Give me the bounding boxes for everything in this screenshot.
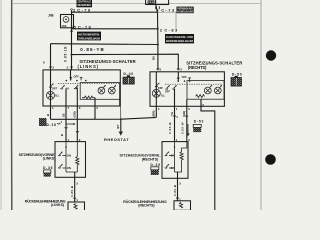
svg-text:ON: ON (67, 154, 71, 158)
svg-text:ILL: ILL (55, 94, 59, 98)
wire contact to pin 1 right (174, 89, 176, 107)
wire line1 C-79 feed (72, 11, 158, 13)
svg-text:OFF: OFF (182, 75, 188, 79)
svg-text:(RECHTS): (RECHTS) (142, 157, 159, 161)
connector 6 C-73 on main wire (155, 6, 174, 12)
wire pin1 to heater right (174, 106, 176, 141)
svg-text:D-36: D-36 (43, 166, 53, 170)
node junction main/line1 (157, 11, 159, 13)
lamp ILL right (152, 89, 165, 97)
wire pin2 to common right (177, 72, 179, 81)
svg-text:YG: YG (170, 112, 174, 116)
heater exit wire (74, 172, 76, 202)
svg-text:(GR): (GR) (73, 111, 77, 117)
LED 2 right (214, 85, 222, 94)
punch hole bottom (265, 154, 276, 165)
contact HI (74, 85, 78, 89)
svg-text:ILL: ILL (161, 93, 165, 97)
svg-text:OFF: OFF (52, 87, 58, 91)
connector D-53 box (193, 124, 201, 132)
heater resistor wire from pin2 (76, 142, 78, 157)
svg-text:C-79: C-79 (77, 8, 91, 13)
hatched label box for C-78 (77, 32, 101, 41)
node bus/arrow (120, 118, 122, 120)
svg-text:0.85-B: 0.85-B (70, 186, 74, 197)
heater resistor element (76, 157, 79, 165)
svg-text:D-50: D-50 (232, 72, 242, 76)
contact HI right (172, 85, 176, 89)
hatched label box for C-83 (165, 34, 194, 43)
wire pin6 to page bottom (201, 106, 215, 210)
node J/B wire / line3 (71, 54, 73, 56)
wire pin3 to lamp (50, 70, 52, 106)
heater internal wire (65, 152, 67, 172)
LED 2 left (108, 85, 116, 94)
svg-text:RHEOSTAT: RHEOSTAT (104, 137, 129, 142)
heater resistor feed right (182, 142, 187, 152)
thermostat contact 2 (58, 164, 71, 170)
heater resistor out (66, 165, 77, 172)
svg-text:OFF: OFF (158, 86, 164, 90)
inline connector on pin5 wire (185, 115, 188, 118)
contact OFF right (165, 85, 171, 93)
heater internal wire right (174, 152, 176, 172)
connector 5 C-78 (70, 24, 91, 31)
pin 2 left switch (67, 66, 73, 70)
page border left (10, 0, 12, 210)
node bus/pin5wire (76, 118, 78, 120)
connector 2 C-83 label (160, 28, 178, 33)
svg-text:C-73: C-73 (161, 7, 175, 12)
svg-text:BODENKABELBAUM: BODENKABELBAUM (166, 39, 194, 43)
node pin6 (200, 105, 202, 107)
heater box left (55, 142, 86, 178)
wire line3 feed to right switch pin 2 (72, 54, 179, 70)
mechanical dashed link (58, 83, 119, 85)
svg-text:ON: ON (67, 166, 71, 170)
J/B feed wire vertical (71, 10, 73, 70)
contact OFF left (60, 85, 68, 91)
svg-text:B5: B5 (152, 56, 156, 60)
heater exit wire right (177, 172, 179, 201)
fuse 10A symbol (61, 17, 69, 28)
thermostat contact 1 (58, 142, 71, 158)
connector pin 1 backrest right (176, 198, 181, 202)
svg-text:0.85-B: 0.85-B (173, 185, 177, 196)
hatched label box for C-73 (177, 7, 194, 14)
wire pin8b drop to bus (94, 106, 96, 119)
backrest resistor left (74, 204, 77, 210)
contact arm ill (49, 84, 57, 91)
svg-text:30A: 30A (148, 1, 154, 4)
pin 3 right switch (157, 68, 162, 72)
resistor R board left (82, 96, 95, 99)
svg-text:B: B (60, 134, 64, 136)
svg-text:B: B (46, 114, 50, 116)
node main/L44 (157, 44, 159, 46)
svg-text:BY: BY (116, 124, 120, 128)
svg-text:0.85-YB: 0.85-YB (80, 47, 104, 52)
link arrow pins (66, 123, 76, 125)
wire contact1 down to pin 1 (65, 88, 67, 106)
main wire from fuse to right switch pin 3 (156, 5, 158, 71)
thermostat contact 2 right (165, 164, 175, 170)
pin 3 left switch (49, 66, 54, 70)
page border top (12, 3, 261, 5)
svg-text:(LINKS): (LINKS) (43, 156, 56, 160)
wire board corner right (119, 99, 121, 106)
direction arrow on pin5 wire (186, 124, 189, 137)
connector D-50 hatched box (231, 76, 242, 86)
heater box right (162, 142, 188, 179)
wire contact2 down to pin 5 (76, 88, 78, 106)
switch box right (150, 72, 224, 107)
page border left faint (0, 0, 2, 210)
svg-text:(LINKS): (LINKS) (78, 64, 99, 69)
LED 1 right (204, 85, 212, 94)
LED board box right (187, 81, 224, 100)
pin 2 right switch (177, 68, 182, 72)
svg-text:(RECHTS): (RECHTS) (188, 65, 207, 70)
fuse box F (dedicated fuse, top) (146, 0, 169, 5)
svg-text:J/B: J/B (48, 13, 54, 17)
switch top row contacts right (177, 75, 191, 81)
svg-text:(BR): (BR) (152, 111, 156, 117)
wire pin1 drop to heater (65, 106, 67, 142)
wire board to pin 8b (94, 98, 96, 106)
svg-text:0.85-B: 0.85-B (168, 123, 172, 135)
connector D-40 hatched box (123, 75, 134, 84)
wire box corner to bus (120, 106, 122, 119)
lamp ILL left (47, 91, 60, 99)
wire pin4 drop (50, 106, 52, 119)
wire pin4 to rheostat bus (155, 106, 157, 117)
svg-text:TAFELKABELBAUM: TAFELKABELBAUM (78, 36, 101, 40)
wire pin3 to lamp right (155, 72, 157, 107)
page border right (260, 0, 262, 210)
wire line2 C-78 out (72, 28, 158, 30)
connector D-35 box (151, 167, 159, 175)
svg-text:C-83: C-83 (164, 28, 178, 33)
inline connector on pin1 wire (65, 126, 68, 129)
arrow to rheostat (116, 119, 123, 136)
wire board to pin 6 right (200, 99, 202, 106)
connector D-38 symbol (57, 122, 60, 125)
svg-text:10A: 10A (61, 24, 67, 28)
svg-text:SICHERUNG: SICHERUNG (77, 3, 91, 7)
resistor R board right (196, 95, 205, 98)
svg-text:ZENTRALE: ZENTRALE (77, 0, 91, 4)
connector pin 1 backrest left (73, 198, 78, 202)
thermostat contact 1 right (165, 142, 176, 158)
grey connector hook C-83 path (158, 12, 177, 29)
svg-text:D-38: D-38 (47, 123, 57, 127)
connector 2 C-79 (70, 8, 91, 13)
svg-text:0.85-W: 0.85-W (181, 122, 185, 134)
svg-text:C-78: C-78 (78, 24, 92, 29)
switch box left (43, 70, 120, 106)
wire L44 ill feed (51, 43, 158, 46)
inline connector 2 on pin1 wire (173, 115, 178, 119)
paper background (0, 0, 280, 210)
wire board to pin 5 right (186, 99, 188, 106)
mech link dots (66, 80, 68, 82)
svg-text:D-35: D-35 (151, 163, 161, 167)
connector D-36 box (44, 170, 51, 177)
svg-text:KABELBAUM: KABELBAUM (177, 10, 193, 14)
mechanical dashed link right (165, 83, 222, 85)
svg-text:(LINKS): (LINKS) (51, 203, 64, 207)
junction block box (61, 15, 74, 28)
svg-text:1B: 1B (61, 113, 65, 117)
wire pin5 to heater right (186, 106, 188, 141)
switch top row contacts (70, 75, 83, 81)
svg-text:OFF: OFF (74, 75, 80, 79)
svg-text:D-53: D-53 (194, 120, 204, 124)
svg-text:OFF: OFF (165, 89, 171, 93)
wire pin5 drop to heater (76, 106, 78, 142)
node junction main/line2 C-83 (157, 28, 159, 30)
hatched label box for C-79 feed (77, 0, 93, 7)
wire drop to pin 3 left switch (50, 44, 52, 70)
rheostat bus (51, 117, 157, 119)
LED 1 left (98, 85, 106, 94)
backrest heater box left (68, 202, 85, 211)
heater resistor out right (175, 160, 182, 172)
backrest resistor right (179, 202, 182, 208)
wire pin2 to switch common (70, 70, 72, 81)
inline connector on pin5 wire (76, 130, 79, 133)
contact arm ill right (155, 83, 163, 90)
heater resistor element right (180, 152, 183, 160)
backrest heater box right (174, 201, 191, 211)
connector D-38 hatched box (39, 118, 47, 126)
svg-text:(RECHTS): (RECHTS) (138, 204, 154, 208)
LED board box left (80, 83, 119, 100)
svg-text:0.85-1B: 0.85-1B (64, 46, 68, 62)
punch hole top (266, 50, 276, 60)
mech link dots right (177, 80, 179, 82)
